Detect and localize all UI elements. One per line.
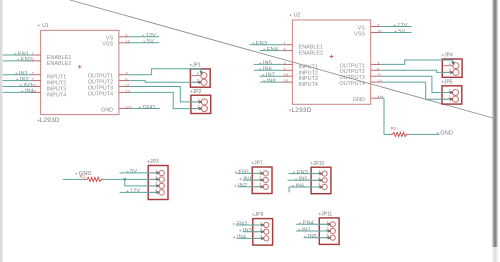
svg-text:IN8: IN8 bbox=[308, 234, 317, 240]
svg-text:5V: 5V bbox=[130, 169, 137, 175]
pin 4*4 GND bbox=[353, 95, 384, 103]
net label EN1 bbox=[235, 170, 250, 176]
IC U2 L293D motor driver bbox=[282, 13, 384, 114]
svg-text:5V: 5V bbox=[147, 39, 154, 45]
net label IN5 bbox=[259, 61, 272, 67]
wire net 5V at U2.VSS bbox=[381, 29, 412, 35]
wire net IN5 to U2 bbox=[254, 61, 283, 67]
pin 3 OUTPUT1 bbox=[88, 71, 129, 79]
connector JP10 3-pin header bbox=[310, 161, 331, 194]
pin 1 bbox=[254, 221, 269, 228]
pin 1 bbox=[149, 168, 164, 175]
svg-text:JP10: JP10 bbox=[313, 161, 325, 167]
svg-text:EN4: EN4 bbox=[303, 221, 314, 227]
pin 2 bbox=[312, 176, 327, 183]
pin 1 bbox=[443, 88, 458, 96]
wire GND net through R1 to JP3 pin2 bbox=[63, 178, 158, 180]
wire net IN8 to JP11 pin3 bbox=[304, 234, 330, 240]
net label IN7 bbox=[298, 227, 311, 233]
svg-text:JP4: JP4 bbox=[444, 53, 453, 59]
net label IN3 bbox=[20, 83, 33, 89]
net label EN1 bbox=[14, 51, 29, 57]
svg-text:JP9: JP9 bbox=[255, 212, 264, 218]
svg-text:4*4: 4*4 bbox=[125, 105, 132, 110]
svg-text:JP7: JP7 bbox=[254, 161, 263, 167]
net label IN4 bbox=[21, 89, 34, 95]
net label 12V bbox=[126, 189, 140, 195]
wire net EN3 to JP10 pin1 bbox=[288, 170, 321, 176]
svg-text:JP11: JP11 bbox=[321, 212, 332, 218]
svg-text:JP3: JP3 bbox=[150, 159, 159, 165]
pin 6 OUTPUT2 bbox=[340, 67, 381, 75]
reference label JP7 bbox=[251, 161, 262, 167]
svg-text:IN6: IN6 bbox=[296, 183, 305, 189]
svg-text:15: 15 bbox=[283, 79, 288, 84]
value label L293D bbox=[289, 107, 312, 114]
reference label JP10 bbox=[310, 161, 324, 167]
connector JP2 2-pin header bbox=[190, 89, 211, 114]
pin 15 INPUT4 bbox=[31, 89, 67, 99]
pin 14 OUTPUT4 bbox=[88, 89, 131, 97]
svg-text:VSS: VSS bbox=[354, 31, 365, 37]
connector JP7 3-pin header bbox=[251, 161, 272, 194]
svg-text:4*4: 4*4 bbox=[377, 95, 384, 100]
net label 5V bbox=[126, 169, 137, 175]
svg-text:OUTPUT4: OUTPUT4 bbox=[340, 81, 365, 87]
net label GND at R1 bbox=[75, 171, 91, 177]
svg-text:12V: 12V bbox=[130, 189, 140, 195]
svg-text:5V: 5V bbox=[398, 29, 405, 35]
wire net EN4 to U2 bbox=[260, 47, 282, 53]
pin 1 ENABLE1 bbox=[31, 52, 72, 62]
net label IN4 bbox=[233, 235, 246, 241]
wire U2.GND down to R2 bbox=[381, 98, 390, 134]
svg-text:14: 14 bbox=[125, 89, 130, 94]
IC U1 L293D motor driver bbox=[31, 23, 133, 124]
pin 8 VS bbox=[106, 33, 129, 41]
wire U2.OUTPUT2 to JP4 pin2 bbox=[381, 70, 452, 72]
svg-text:IN3: IN3 bbox=[243, 228, 252, 234]
pin 1 bbox=[253, 169, 268, 176]
net label IN5 bbox=[295, 177, 308, 183]
net label EN4 bbox=[263, 47, 278, 53]
wire net 12V to JP3 pin4 bbox=[120, 189, 159, 195]
pin 8 VS bbox=[358, 23, 381, 31]
reference label U2 bbox=[289, 13, 300, 19]
connector JP9 3-pin header bbox=[252, 212, 273, 245]
pin 9 ENABLE2 bbox=[31, 57, 72, 67]
pin 15 INPUT4 bbox=[282, 79, 318, 89]
svg-text:L293D: L293D bbox=[40, 117, 60, 124]
svg-text:EN1: EN1 bbox=[238, 170, 249, 176]
wire net EN3 to U2 bbox=[250, 41, 283, 47]
connector JP5 2-pin header bbox=[441, 79, 462, 104]
svg-text:11: 11 bbox=[377, 73, 382, 78]
wire U1.OUTPUT3 to JP2 pin1 bbox=[129, 87, 200, 102]
pin 2 INPUT1 bbox=[31, 71, 67, 81]
svg-text:10: 10 bbox=[283, 73, 288, 78]
reference label JP1 bbox=[190, 63, 201, 69]
svg-text:IN7: IN7 bbox=[302, 227, 311, 233]
svg-text:EN4: EN4 bbox=[267, 47, 278, 53]
pin 3 OUTPUT1 bbox=[340, 61, 381, 69]
pin 3 bbox=[321, 233, 336, 240]
net label IN2 bbox=[234, 183, 247, 189]
pin 10 INPUT3 bbox=[282, 73, 318, 83]
wire net IN2 to U1 bbox=[3, 77, 31, 83]
junction dot bbox=[123, 178, 126, 181]
connector JP11 3-pin header bbox=[319, 212, 339, 245]
wire net IN1 to U1 bbox=[3, 71, 31, 77]
net label 5V bbox=[143, 39, 154, 45]
pin 1 bbox=[192, 71, 207, 79]
net label IN8 bbox=[263, 78, 276, 84]
pin 2 bbox=[192, 78, 207, 86]
wire U1.OUTPUT4 to JP2 pin2 bbox=[129, 92, 200, 108]
pin 9 ENABLE2 bbox=[282, 47, 323, 57]
pin 3 bbox=[254, 234, 269, 241]
net label EN3 bbox=[293, 170, 308, 176]
svg-text:IN8: IN8 bbox=[267, 78, 276, 84]
svg-text:INPUT4: INPUT4 bbox=[299, 82, 318, 88]
wire U2.OUTPUT4 to JP5 pin2 bbox=[381, 82, 451, 99]
wire net IN4 to U1 bbox=[3, 89, 34, 95]
pin 11 OUTPUT3 bbox=[340, 73, 383, 81]
pin 10 INPUT3 bbox=[31, 83, 67, 93]
net label IN1 bbox=[239, 176, 252, 182]
wire net EN1 to U1 bbox=[3, 51, 31, 57]
svg-text:U2: U2 bbox=[294, 13, 301, 19]
wire net 5V at U1.VSS bbox=[129, 39, 159, 45]
net label EN3 bbox=[252, 41, 267, 47]
pin 3 bbox=[312, 183, 327, 190]
reference label JP3 bbox=[147, 159, 158, 165]
wire net IN7 to JP11 pin2 bbox=[296, 227, 329, 233]
net label IN7 bbox=[262, 73, 275, 79]
net label IN8 bbox=[304, 234, 317, 240]
pin 1 bbox=[192, 97, 207, 105]
svg-text:EN2: EN2 bbox=[21, 57, 32, 63]
wire net IN4 to JP9 pin3 bbox=[233, 235, 263, 241]
reference label JP5 bbox=[441, 79, 452, 85]
pin 2 bbox=[192, 104, 207, 112]
svg-text:IN5: IN5 bbox=[299, 177, 308, 183]
net label IN6 bbox=[259, 67, 272, 73]
svg-text:16: 16 bbox=[377, 29, 382, 34]
svg-text:L293D: L293D bbox=[292, 107, 312, 114]
net label GND bbox=[139, 105, 155, 111]
svg-text:11: 11 bbox=[125, 83, 130, 88]
wire net 12V at U2.VS bbox=[381, 23, 412, 29]
diagonal line bbox=[70, 0, 493, 118]
pin 3 bbox=[149, 181, 164, 188]
pin 2 INPUT1 bbox=[282, 61, 318, 71]
pin 2 bbox=[253, 176, 268, 183]
pin 11 OUTPUT3 bbox=[88, 83, 131, 91]
svg-text:EN3: EN3 bbox=[297, 170, 308, 176]
wire U2.OUTPUT3 to JP5 pin1 bbox=[381, 76, 451, 92]
svg-text:JP5: JP5 bbox=[444, 79, 453, 85]
net label EN4 bbox=[299, 221, 314, 227]
wire junction to JP3 pin3 bbox=[125, 179, 159, 186]
svg-text:GND: GND bbox=[440, 131, 453, 137]
svg-text:ENABLE2: ENABLE2 bbox=[47, 61, 71, 67]
svg-text:VSS: VSS bbox=[102, 42, 113, 48]
pin 16 VSS bbox=[354, 29, 382, 37]
connector JP1 2-pin header bbox=[190, 63, 211, 88]
pin 1 ENABLE1 bbox=[282, 41, 323, 51]
connector JP4 2-pin header bbox=[442, 53, 462, 78]
value label L293D bbox=[37, 117, 60, 124]
resistor R2 bbox=[389, 126, 408, 136]
net label EN2 bbox=[17, 57, 32, 63]
net label IN1 bbox=[15, 71, 28, 77]
resistor R1 bbox=[80, 174, 103, 182]
svg-text:U1: U1 bbox=[42, 23, 49, 29]
svg-text:R2: R2 bbox=[391, 126, 397, 131]
reference label JP4 bbox=[442, 53, 453, 59]
reference label JP9 bbox=[252, 212, 263, 218]
net label 12V bbox=[394, 23, 408, 29]
wire net GND at U1.GND bbox=[129, 105, 160, 111]
wire net IN1 to JP7 pin2 bbox=[239, 176, 262, 182]
wire U1.OUTPUT2 to JP1 pin2 bbox=[129, 81, 200, 83]
pin 14 OUTPUT4 bbox=[340, 79, 383, 87]
wire net 5V to JP3 pin1 bbox=[120, 169, 159, 175]
pin 1 bbox=[312, 169, 327, 176]
svg-text:IN4: IN4 bbox=[237, 235, 246, 241]
svg-text:ENABLE2: ENABLE2 bbox=[299, 51, 323, 57]
wire net IN6 to U2 bbox=[254, 67, 283, 73]
svg-text:GND: GND bbox=[143, 105, 156, 111]
wire net EN4 to JP11 pin1 bbox=[296, 221, 329, 227]
reference label JP11 bbox=[319, 212, 333, 218]
svg-text:JP1: JP1 bbox=[192, 63, 201, 69]
wire net IN7 to U2 bbox=[260, 73, 283, 79]
svg-text:OUTPUT4: OUTPUT4 bbox=[88, 91, 113, 97]
svg-text:EN2: EN2 bbox=[236, 221, 247, 227]
svg-text:GND: GND bbox=[353, 97, 365, 103]
svg-text:IN2: IN2 bbox=[238, 183, 247, 189]
svg-text:INPUT4: INPUT4 bbox=[47, 92, 66, 98]
net label IN2 bbox=[16, 77, 29, 83]
reference label JP2 bbox=[190, 89, 201, 95]
wire net EN2 to JP9 pin1 bbox=[233, 221, 263, 227]
wire net 12V at U1.VS bbox=[129, 33, 159, 39]
pin 7 INPUT2 bbox=[282, 67, 318, 77]
net label IN6 bbox=[292, 183, 305, 189]
pin 2 bbox=[254, 227, 269, 234]
net label 12V bbox=[142, 33, 156, 39]
svg-text:IN1: IN1 bbox=[243, 176, 252, 182]
pin 3 bbox=[253, 182, 268, 189]
pin 2 bbox=[443, 95, 458, 103]
reference label U1 bbox=[38, 23, 49, 29]
wire U1.OUTPUT1 to JP1 pin1 bbox=[129, 69, 203, 75]
pin 4 bbox=[149, 188, 164, 195]
pin 16 VSS bbox=[102, 39, 130, 47]
wire U2.OUTPUT1 to JP4 pin1 bbox=[381, 60, 455, 65]
pin 4*4 GND bbox=[101, 105, 132, 113]
pin 2 bbox=[444, 68, 459, 76]
net label IN3 bbox=[239, 228, 252, 234]
wire net EN2 to U1 bbox=[3, 57, 32, 63]
svg-text:GND: GND bbox=[101, 107, 113, 113]
net label 5V bbox=[394, 29, 405, 35]
svg-text:GND: GND bbox=[79, 171, 92, 177]
svg-text:14: 14 bbox=[377, 79, 382, 84]
svg-text:EN3: EN3 bbox=[256, 41, 267, 47]
svg-text:16: 16 bbox=[125, 39, 130, 44]
wire net EN1 to JP7 pin1 bbox=[235, 170, 263, 176]
pin 6 OUTPUT2 bbox=[88, 77, 129, 85]
wire net IN3 to JP9 pin2 bbox=[239, 228, 263, 234]
wire net IN5 to JP10 pin2 bbox=[288, 177, 322, 183]
pin 2 bbox=[321, 227, 336, 234]
svg-text:IN4: IN4 bbox=[25, 89, 34, 95]
pin 2 bbox=[149, 175, 164, 182]
svg-text:JP2: JP2 bbox=[193, 89, 202, 95]
connector JP3 4-pin header bbox=[147, 159, 168, 199]
wire net IN3 to U1 bbox=[3, 83, 32, 89]
pin 1 bbox=[321, 220, 336, 227]
pin 1 bbox=[444, 61, 459, 69]
wire net IN6 to JP10 pin3 bbox=[289, 183, 321, 192]
svg-text:10: 10 bbox=[32, 83, 37, 88]
pin 7 INPUT2 bbox=[31, 77, 67, 87]
wire net IN8 to U2 bbox=[260, 78, 282, 84]
net label GND bbox=[437, 131, 453, 137]
left window edge strip bbox=[0, 0, 3, 262]
wire R2 to GND label bbox=[408, 131, 453, 137]
wire net IN2 to JP7 pin3 bbox=[234, 183, 262, 189]
net label EN2 bbox=[233, 221, 248, 227]
